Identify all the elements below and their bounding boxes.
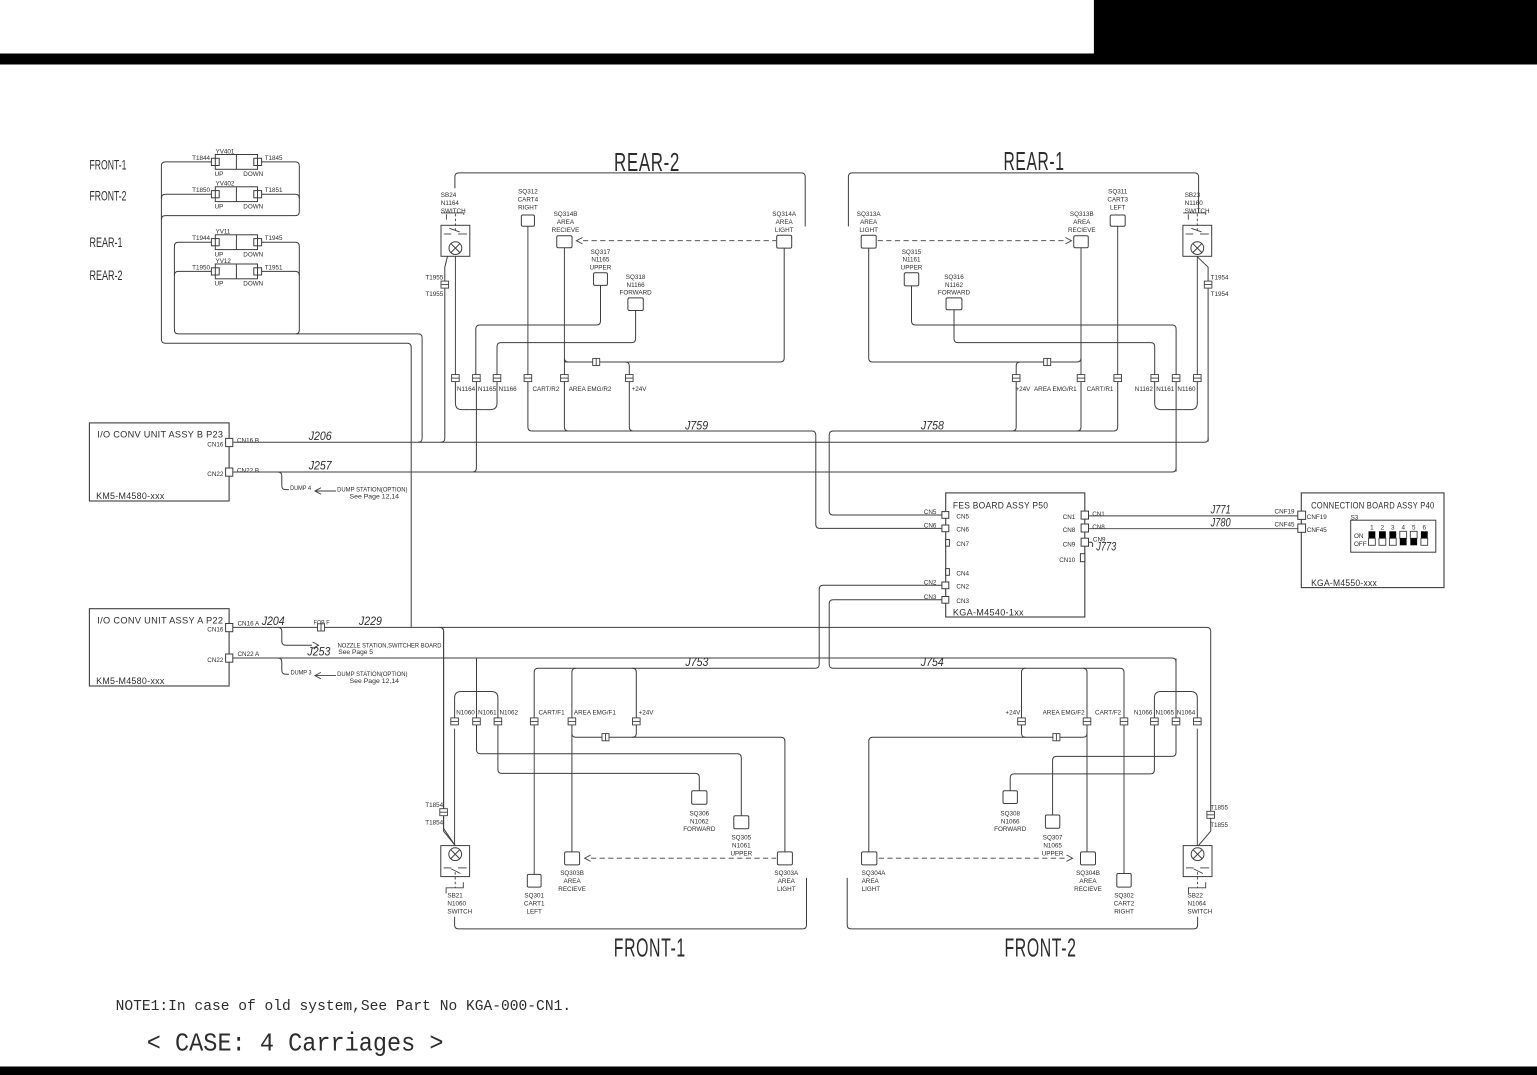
svg-text:AREA: AREA [778, 878, 796, 885]
svg-text:UP: UP [215, 203, 224, 210]
svg-text:CART1: CART1 [524, 901, 545, 908]
svg-text:KGA-M4540-1xx: KGA-M4540-1xx [953, 607, 1024, 618]
svg-text:N1166: N1166 [499, 386, 518, 393]
svg-text:J253: J253 [306, 646, 330, 658]
svg-text:NOTE1:In case of old system,Se: NOTE1:In case of old system,See Part No … [116, 998, 571, 1015]
svg-text:CN3: CN3 [956, 598, 969, 605]
svg-text:J753: J753 [684, 657, 708, 669]
svg-text:J257: J257 [308, 461, 332, 473]
svg-text:SQ316: SQ316 [944, 274, 964, 281]
svg-text:CN22 B: CN22 B [237, 467, 259, 474]
svg-text:YV12: YV12 [216, 258, 232, 265]
svg-text:CN22: CN22 [207, 471, 224, 478]
svg-text:RECIEVE: RECIEVE [1068, 227, 1096, 234]
svg-text:AREA: AREA [557, 219, 575, 226]
svg-text:SQ314B: SQ314B [554, 211, 578, 218]
svg-text:AREA: AREA [564, 878, 582, 885]
svg-text:J229: J229 [358, 616, 382, 628]
svg-text:+24V: +24V [632, 386, 648, 393]
svg-text:CART/F1: CART/F1 [539, 710, 566, 717]
svg-text:UP: UP [215, 281, 224, 288]
svg-text:AREA EMG/R1: AREA EMG/R1 [1034, 386, 1077, 393]
svg-text:CART2: CART2 [1114, 901, 1135, 908]
svg-text:CN16: CN16 [207, 441, 224, 448]
svg-text:REAR-2: REAR-2 [90, 268, 123, 283]
svg-text:CART/F2: CART/F2 [1095, 710, 1122, 717]
svg-text:OFF: OFF [1354, 541, 1367, 548]
svg-text:LIGHT: LIGHT [862, 886, 881, 893]
svg-text:CN2: CN2 [956, 584, 969, 591]
svg-text:CN9: CN9 [1063, 541, 1076, 548]
svg-text:T1854: T1854 [425, 819, 443, 826]
svg-text:SWITCH: SWITCH [447, 908, 472, 915]
svg-text:N1161: N1161 [902, 257, 921, 264]
svg-text:CONNECTION BOARD ASSY P40: CONNECTION BOARD ASSY P40 [1311, 500, 1434, 511]
svg-text:N1162: N1162 [1135, 386, 1154, 393]
svg-text:SB21: SB21 [447, 893, 463, 900]
svg-text:J773: J773 [1095, 542, 1116, 554]
svg-text:N1064: N1064 [1188, 901, 1207, 908]
svg-text:RIGHT: RIGHT [1114, 908, 1134, 915]
svg-text:FORWARD: FORWARD [994, 826, 1027, 833]
svg-text:YV401: YV401 [216, 148, 235, 155]
svg-text:1: 1 [1370, 525, 1374, 532]
svg-text:+24V: +24V [639, 710, 655, 717]
svg-text:SQ308: SQ308 [1000, 810, 1020, 817]
svg-text:+24V: +24V [1015, 386, 1031, 393]
svg-text:SQ305: SQ305 [731, 835, 751, 842]
svg-text:LIGHT: LIGHT [775, 227, 794, 234]
svg-text:CN7: CN7 [956, 541, 969, 548]
svg-text:YV11: YV11 [216, 229, 231, 236]
svg-text:+24V: +24V [1005, 710, 1021, 717]
svg-text:T1954: T1954 [1211, 274, 1229, 281]
svg-text:AREA: AREA [860, 219, 878, 226]
svg-text:CNF19: CNF19 [1275, 509, 1295, 516]
svg-text:SQ303B: SQ303B [560, 870, 584, 877]
svg-text:SQ315: SQ315 [902, 249, 922, 256]
svg-text:See Page 12,14: See Page 12,14 [350, 678, 400, 685]
svg-text:CN16 A: CN16 A [238, 621, 261, 628]
svg-text:T1945: T1945 [265, 235, 283, 242]
svg-text:CART3: CART3 [1107, 197, 1128, 204]
svg-text:SB22: SB22 [1188, 893, 1204, 900]
svg-text:CN5: CN5 [956, 513, 969, 520]
svg-text:CN5: CN5 [924, 509, 937, 516]
svg-text:T1951: T1951 [265, 264, 283, 271]
svg-text:CN22 A: CN22 A [238, 651, 261, 658]
svg-text:FRONT-1: FRONT-1 [614, 932, 686, 962]
svg-text:N1164: N1164 [457, 386, 476, 393]
svg-text:AREA EMG/F2: AREA EMG/F2 [1043, 710, 1085, 717]
svg-text:DOWN: DOWN [243, 251, 263, 258]
svg-text:N1065: N1065 [1155, 710, 1174, 717]
svg-text:AREA: AREA [862, 878, 880, 885]
svg-text:SWITCH: SWITCH [1188, 908, 1213, 915]
svg-text:SB23: SB23 [1185, 192, 1201, 199]
svg-text:T1855: T1855 [1210, 805, 1228, 812]
svg-text:SQ303A: SQ303A [774, 870, 799, 877]
svg-text:AREA: AREA [1073, 219, 1091, 226]
svg-text:FORWARD: FORWARD [938, 290, 971, 297]
svg-text:T1845: T1845 [265, 155, 283, 162]
svg-text:T1855: T1855 [1210, 822, 1228, 829]
svg-text:N1165: N1165 [478, 386, 497, 393]
svg-text:CN4: CN4 [956, 570, 969, 577]
svg-text:FORWARD: FORWARD [620, 290, 653, 297]
svg-text:SQ304B: SQ304B [1076, 870, 1100, 877]
svg-text:T1850: T1850 [192, 187, 210, 194]
svg-text:RECIEVE: RECIEVE [558, 886, 586, 893]
svg-text:REAR-1: REAR-1 [90, 235, 123, 250]
svg-text:N1061: N1061 [732, 843, 751, 850]
svg-text:SQ312: SQ312 [518, 189, 538, 196]
svg-text:N1160: N1160 [1177, 386, 1196, 393]
svg-text:SWITCH: SWITCH [441, 208, 466, 215]
svg-text:DUMP 4: DUMP 4 [290, 485, 311, 492]
svg-text:J771: J771 [1210, 505, 1231, 517]
svg-text:N1061: N1061 [478, 710, 497, 717]
svg-text:N1064: N1064 [1177, 710, 1196, 717]
svg-text:T1950: T1950 [192, 264, 210, 271]
svg-text:SQ311: SQ311 [1108, 189, 1128, 196]
svg-text:CNF45: CNF45 [1275, 521, 1295, 528]
svg-text:CN10: CN10 [1059, 557, 1076, 564]
svg-text:N1065: N1065 [1043, 843, 1062, 850]
svg-text:FES BOARD ASSY P50: FES BOARD ASSY P50 [953, 500, 1048, 511]
svg-text:N1161: N1161 [1156, 386, 1175, 393]
svg-text:T1944: T1944 [192, 235, 210, 242]
svg-text:See Page 5: See Page 5 [338, 649, 373, 656]
svg-text:FRONT-1: FRONT-1 [90, 157, 127, 172]
svg-text:RECIEVE: RECIEVE [552, 227, 580, 234]
svg-text:CN1: CN1 [1092, 511, 1105, 518]
svg-text:RIGHT: RIGHT [518, 204, 538, 211]
svg-text:DUMP 3: DUMP 3 [291, 670, 312, 677]
svg-text:N1062: N1062 [500, 710, 519, 717]
svg-text:CNF19: CNF19 [1307, 514, 1327, 521]
svg-text:SQ313B: SQ313B [1070, 211, 1094, 218]
svg-text:SB24: SB24 [441, 192, 457, 199]
svg-text:N1162: N1162 [945, 282, 964, 289]
svg-text:DOWN: DOWN [243, 171, 263, 178]
svg-text:AREA EMG/R2: AREA EMG/R2 [569, 386, 612, 393]
svg-text:J204: J204 [261, 616, 285, 628]
svg-text:LIGHT: LIGHT [859, 227, 878, 234]
svg-text:N1165: N1165 [591, 257, 610, 264]
svg-text:3: 3 [1391, 525, 1395, 532]
svg-text:N1066: N1066 [1134, 710, 1153, 717]
svg-text:UPPER: UPPER [901, 265, 923, 272]
svg-text:T1854: T1854 [425, 802, 443, 809]
svg-text:CART/R2: CART/R2 [533, 386, 560, 393]
svg-text:DOWN: DOWN [243, 281, 263, 288]
svg-text:SQ314A: SQ314A [772, 211, 797, 218]
svg-text:SQ317: SQ317 [591, 249, 611, 256]
svg-text:N1062: N1062 [690, 818, 709, 825]
svg-text:6: 6 [1423, 525, 1427, 532]
svg-text:SQ313A: SQ313A [857, 211, 882, 218]
svg-text:N1060: N1060 [456, 710, 475, 717]
svg-text:SQ306: SQ306 [689, 810, 709, 817]
svg-text:CN1: CN1 [1063, 514, 1076, 521]
svg-text:T1844: T1844 [192, 155, 210, 162]
svg-text:CN8: CN8 [1092, 524, 1105, 531]
svg-text:REAR-2: REAR-2 [614, 147, 680, 177]
svg-text:REAR-1: REAR-1 [1004, 146, 1065, 176]
svg-text:4: 4 [1401, 525, 1405, 532]
svg-text:AREA EMG/F1: AREA EMG/F1 [574, 710, 616, 717]
svg-text:N1066: N1066 [1001, 818, 1020, 825]
svg-text:CN16: CN16 [207, 627, 224, 634]
svg-text:CNF45: CNF45 [1307, 527, 1327, 534]
svg-text:2: 2 [1381, 525, 1385, 532]
svg-text:FORWARD: FORWARD [683, 826, 716, 833]
svg-text:SQ318: SQ318 [626, 274, 646, 281]
svg-text:UPPER: UPPER [730, 850, 752, 857]
svg-text:T1955: T1955 [425, 274, 443, 281]
svg-text:CN6: CN6 [956, 527, 969, 534]
svg-text:J754: J754 [920, 657, 944, 669]
svg-text:See Page 12,14: See Page 12,14 [350, 494, 400, 501]
svg-text:ON: ON [1354, 533, 1364, 540]
svg-text:KM5-M4580-xxx: KM5-M4580-xxx [96, 491, 165, 502]
svg-text:LEFT: LEFT [1110, 204, 1126, 211]
svg-text:SQ307: SQ307 [1043, 835, 1063, 842]
svg-text:CN22: CN22 [207, 657, 224, 664]
svg-text:SQ301: SQ301 [524, 893, 544, 900]
svg-text:CN16 B: CN16 B [237, 438, 259, 445]
svg-text:I/O CONV UNIT ASSY B P23: I/O CONV UNIT ASSY B P23 [97, 430, 223, 441]
svg-text:AREA: AREA [1079, 878, 1097, 885]
svg-text:KGA-M4550-xxx: KGA-M4550-xxx [1311, 578, 1377, 589]
svg-text:J206: J206 [308, 431, 332, 443]
svg-text:FRONT-2: FRONT-2 [1005, 932, 1077, 962]
svg-text:RECIEVE: RECIEVE [1074, 886, 1102, 893]
svg-text:DUMP STATION(OPTION): DUMP STATION(OPTION) [337, 671, 407, 678]
svg-text:N1166: N1166 [627, 282, 646, 289]
svg-text:< CASE: 4 Carriages >: < CASE: 4 Carriages > [147, 1029, 444, 1059]
svg-text:DUMP STATION(OPTION): DUMP STATION(OPTION) [337, 486, 407, 493]
svg-text:T1954: T1954 [1211, 291, 1229, 298]
svg-text:LIGHT: LIGHT [777, 886, 796, 893]
svg-text:N1164: N1164 [441, 200, 460, 207]
svg-text:SQ302: SQ302 [1114, 893, 1134, 900]
svg-text:FRONT-2: FRONT-2 [90, 189, 127, 204]
svg-text:UPPER: UPPER [590, 265, 612, 272]
svg-text:T1955: T1955 [425, 291, 443, 298]
svg-text:SQ304A: SQ304A [862, 870, 887, 877]
svg-text:DOWN: DOWN [243, 203, 263, 210]
svg-text:J780: J780 [1210, 517, 1231, 529]
svg-text:T1851: T1851 [265, 187, 283, 194]
svg-text:UP: UP [215, 171, 224, 178]
svg-text:CN8: CN8 [1063, 527, 1076, 534]
svg-text:UPPER: UPPER [1042, 850, 1064, 857]
svg-text:I/O CONV UNIT ASSY A P22: I/O CONV UNIT ASSY A P22 [97, 616, 223, 627]
svg-text:CART4: CART4 [518, 197, 539, 204]
svg-text:KM5-M4580-xxx: KM5-M4580-xxx [96, 676, 165, 687]
svg-text:AREA: AREA [776, 219, 794, 226]
svg-text:CN6: CN6 [924, 522, 937, 529]
svg-text:YV402: YV402 [216, 181, 235, 188]
svg-text:N1060: N1060 [447, 901, 466, 908]
svg-text:5: 5 [1412, 525, 1416, 532]
svg-text:N1160: N1160 [1185, 200, 1204, 207]
svg-text:CART/R1: CART/R1 [1087, 386, 1114, 393]
svg-text:LEFT: LEFT [526, 908, 542, 915]
